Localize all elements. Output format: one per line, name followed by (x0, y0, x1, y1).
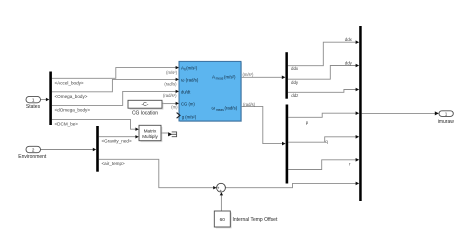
svg-text:meas: meas (216, 77, 224, 81)
svg-text:ω: ω (212, 106, 216, 111)
svg-text:60: 60 (220, 217, 226, 223)
svg-text:<dOmega_body>: <dOmega_body> (55, 107, 91, 112)
svg-text:<Gravity_ned>: <Gravity_ned> (102, 138, 132, 143)
svg-text:2: 2 (32, 148, 35, 153)
svg-text:Matrix: Matrix (144, 128, 157, 133)
svg-text:Multiply: Multiply (142, 134, 158, 139)
svg-text:(rad/s²): (rad/s²) (163, 93, 177, 98)
svg-text:ω (rad/s): ω (rad/s) (181, 78, 199, 83)
svg-text:ddy: ddy (345, 60, 353, 65)
svg-text:CG (m): CG (m) (181, 101, 195, 106)
svg-text:ddz: ddz (291, 93, 298, 98)
svg-text:Environment: Environment (18, 154, 47, 160)
svg-text:(rad/s): (rad/s) (243, 102, 256, 107)
svg-text:du/dt: du/dt (181, 89, 191, 94)
svg-text:(rad/s): (rad/s) (225, 106, 238, 111)
svg-text:-C-: -C- (142, 102, 149, 108)
svg-text:1: 1 (32, 98, 35, 103)
svg-text:imuraw: imuraw (438, 119, 455, 125)
svg-text:<Accel_body>: <Accel_body> (55, 80, 84, 85)
svg-text:(m): (m) (171, 104, 178, 109)
svg-text:States: States (26, 104, 41, 110)
svg-text:g (m/s²): g (m/s²) (182, 114, 197, 119)
svg-text:(m/s²): (m/s²) (166, 70, 178, 75)
svg-text:<air_temp>: <air_temp> (102, 161, 126, 166)
svg-text:+: + (219, 189, 222, 194)
svg-text:ddy: ddy (291, 80, 299, 85)
svg-text:(rad/s): (rad/s) (164, 81, 177, 86)
svg-text:meas: meas (216, 108, 224, 112)
svg-text:<Omega_body>: <Omega_body> (55, 94, 88, 99)
svg-text:(m/s²): (m/s²) (243, 72, 255, 77)
svg-text:CG location: CG location (132, 111, 158, 117)
svg-text:Internal Temp Offset: Internal Temp Offset (233, 217, 278, 223)
svg-text:(m/s²): (m/s²) (186, 65, 198, 70)
svg-text:<DCM_be>: <DCM_be> (55, 121, 79, 126)
svg-text:(m/s²): (m/s²) (224, 74, 236, 79)
svg-text:ddx: ddx (291, 66, 299, 71)
svg-text:ddx: ddx (345, 37, 353, 42)
